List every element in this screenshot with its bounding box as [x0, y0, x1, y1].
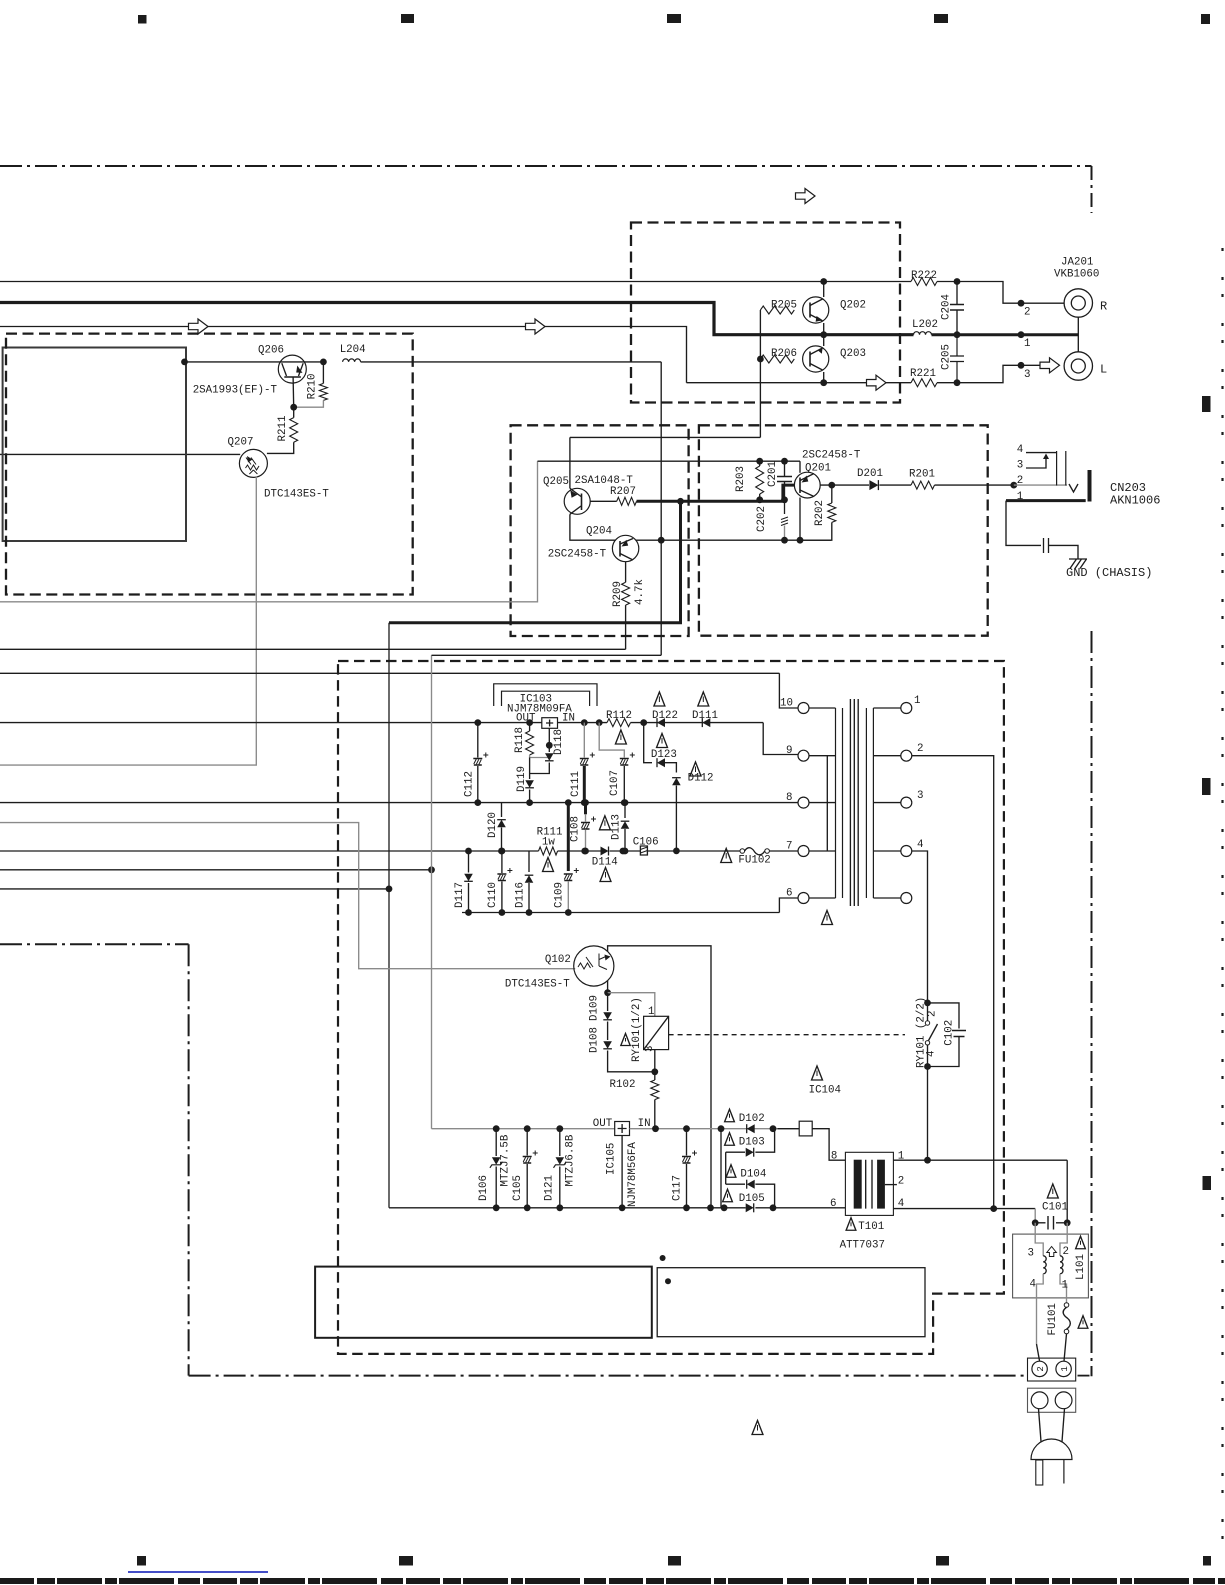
transformer core: [850, 699, 858, 906]
wire L101 winding2 lead: [1060, 1223, 1067, 1256]
wire L202 to jacks: [932, 333, 1079, 336]
inductor L202: [914, 332, 932, 335]
wire thick down to PSU: [388, 623, 390, 1208]
svg-text:2: 2: [917, 743, 923, 755]
wire Q207 emitter long down: [0, 477, 256, 765]
label switch pin 4: [926, 1051, 938, 1057]
fuse FU102: [740, 848, 769, 855]
node rail R102: [652, 1125, 659, 1132]
dashed box power supply section: [338, 661, 1004, 1354]
node C111 bottom: [581, 799, 588, 806]
label L204: [340, 344, 366, 356]
terminal 2: [1032, 1361, 1047, 1376]
registration mark top 2: [401, 14, 414, 23]
node R118 top: [526, 719, 533, 726]
node C101 right: [1064, 1219, 1071, 1226]
wire plug right: [1062, 1409, 1065, 1442]
label D112: [688, 773, 714, 785]
label Q203: [840, 348, 866, 360]
wire Q205 emitter top: [569, 437, 571, 488]
label IN IC103: [562, 713, 575, 725]
terminal block: [1028, 1358, 1076, 1381]
ground (chassis) symbol: [1069, 559, 1087, 569]
warning triangle above D122: [654, 692, 665, 706]
svg-text:Q204: Q204: [586, 526, 612, 538]
label CN203 pin3: [1017, 460, 1023, 472]
svg-text:2SA1993(EF)-T: 2SA1993(EF)-T: [193, 385, 278, 397]
svg-text:R: R: [1100, 300, 1107, 314]
svg-text:AKN1006: AKN1006: [1110, 494, 1160, 508]
sheet dash-dot border top-right corner: [1091, 166, 1093, 213]
node C112 top: [474, 719, 481, 726]
wire base feed R205/R206: [570, 436, 761, 438]
label NJM78M09FA: [507, 704, 572, 716]
node jack R feed: [1018, 300, 1025, 307]
capacitor C112: [473, 723, 488, 803]
node Q102 emitter: [604, 989, 611, 996]
node jack L feed: [1018, 362, 1025, 369]
diode D121 zener: [554, 1129, 567, 1208]
label R207: [610, 486, 636, 498]
connector JA201 jack R: [1064, 289, 1092, 317]
capacitor C107: [599, 723, 635, 803]
svg-text:C102: C102: [944, 1020, 956, 1046]
warning triangle D105: [723, 1189, 733, 1202]
connector CN203 housing: [1088, 470, 1092, 502]
svg-text:FU102: FU102: [738, 855, 770, 867]
dashed box Q201 section: [699, 425, 988, 635]
svg-text:3: 3: [1024, 369, 1030, 381]
wire Q204 emitter: [625, 562, 627, 583]
label FU101: [1047, 1303, 1059, 1335]
wire y326 to Q203: [0, 327, 687, 383]
diode D120: [497, 803, 506, 851]
wire R221 to jack L: [957, 365, 1040, 382]
label pin3 jack: [1024, 369, 1030, 381]
wire Q201 emitter down: [799, 498, 801, 541]
wire Q206 emitter down: [292, 377, 295, 407]
node C109 bottom: [565, 909, 572, 916]
label T101 pin1: [898, 1151, 904, 1163]
transformer primary pin 6: [798, 893, 836, 904]
warning triangle relay: [621, 1034, 630, 1046]
label 2SC2458-T Q204: [548, 548, 607, 560]
node R102 top: [651, 1068, 658, 1075]
wire y655 crossover: [432, 654, 662, 656]
transformer secondary pin 5: [873, 893, 911, 904]
wire rail y649 from left: [0, 648, 626, 650]
node C107 top: [596, 719, 603, 726]
wire T101 pin4 row: [893, 1208, 1035, 1210]
svg-text:D103: D103: [739, 1137, 765, 1149]
svg-text:OUT: OUT: [593, 1118, 613, 1130]
svg-text:L101: L101: [1075, 1254, 1087, 1280]
label R118: [514, 727, 526, 753]
label CN203: [1110, 481, 1146, 495]
wire Q102 collector loop: [608, 946, 711, 1208]
svg-text:R221: R221: [910, 368, 936, 380]
transformer secondary pin 3: [873, 797, 911, 808]
wire D102 ladder left: [720, 1129, 722, 1208]
svg-text:4: 4: [1030, 1279, 1036, 1291]
node D112 bottom: [673, 848, 680, 855]
label RY101(2/2): [916, 997, 928, 1068]
wire rail V1 to pin9: [763, 723, 798, 755]
ac plug prong left: [1036, 1460, 1043, 1485]
wire C106 to FU102: [648, 850, 741, 852]
ac connector pin left: [1031, 1392, 1048, 1409]
wire Q201 collector: [799, 461, 801, 473]
wire gray y822 to Q102 base: [0, 823, 575, 969]
label sec pin 3: [917, 790, 923, 802]
node Q202 emitter: [820, 331, 827, 338]
diode D111: [702, 718, 710, 727]
transformer secondary winding bars: [866, 708, 873, 898]
label L101: [1075, 1254, 1087, 1280]
label GND (CHASIS): [1066, 566, 1152, 580]
node pin4 row right vertical: [990, 1205, 997, 1212]
relay RY101(1/2) coil: [644, 1016, 669, 1049]
label 1w: [542, 836, 555, 848]
ac connector pin right: [1055, 1392, 1072, 1409]
transformer secondary pin 1: [873, 703, 911, 714]
svg-text:2SC2458-T: 2SC2458-T: [802, 450, 861, 462]
svg-text:Q203: Q203: [840, 348, 866, 360]
diode D106 zener: [490, 1129, 503, 1208]
svg-text:DTC143ES-T: DTC143ES-T: [264, 488, 329, 500]
transformer T101 left winding: [854, 1160, 862, 1209]
dashed box Q202/Q203 section: [631, 223, 900, 403]
node pin1 row relay vertical: [924, 1157, 931, 1164]
arrow on wire y326 mid: [526, 319, 546, 334]
connector JA201 jack L: [1064, 352, 1092, 380]
diode D118: [530, 728, 554, 773]
registration mark bottom 3: [668, 1556, 681, 1566]
capacitor C109 column: [564, 803, 579, 913]
label T101 pin4: [898, 1198, 904, 1210]
svg-text:R202: R202: [814, 500, 826, 526]
wire sec pin4 branch: [912, 851, 928, 1003]
wire D114 to C106: [610, 850, 641, 852]
svg-text:RY101(1/2): RY101(1/2): [631, 997, 643, 1062]
resistor R111: [539, 847, 558, 855]
warning triangle IC104: [812, 1066, 823, 1080]
warning triangle below R112: [615, 730, 626, 744]
node rail C117: [683, 1125, 690, 1132]
transistor Q204: [612, 535, 638, 561]
label Q102: [545, 954, 571, 966]
diode D109: [603, 993, 612, 1040]
svg-text:C109: C109: [554, 882, 566, 908]
label C204: [941, 294, 953, 320]
label D118: [553, 729, 565, 755]
capacitor gnd coupling: [1044, 538, 1049, 553]
wire CN203 pin3 with arrow: [1026, 454, 1049, 469]
wire cap to ground: [1049, 545, 1079, 559]
label MTZJ7.5B: [500, 1134, 512, 1186]
label D102: [739, 1113, 765, 1125]
node Q201 emitter bottom: [797, 537, 804, 544]
svg-text:3: 3: [917, 790, 923, 802]
svg-text:L: L: [1100, 363, 1107, 377]
capacitor C105: [523, 1129, 538, 1208]
label Q201: [805, 462, 831, 474]
warning triangle below R111: [543, 858, 554, 872]
wire D123 to D112: [665, 763, 676, 773]
wire x431 vertical: [431, 655, 433, 1128]
diode D112: [672, 778, 681, 786]
svg-text:R205: R205: [771, 299, 797, 311]
wire Q207 join rail y673: [0, 672, 779, 674]
node R203 bottom: [756, 496, 763, 503]
label D123: [651, 749, 677, 761]
label L101 pin3: [1028, 1248, 1034, 1260]
svg-text:D105: D105: [739, 1193, 765, 1205]
capacitor C108: [581, 803, 596, 850]
svg-text:10: 10: [780, 698, 793, 710]
label L202: [912, 319, 938, 331]
resistor R203: [756, 461, 764, 500]
wire CN203 pin4: [1026, 452, 1057, 454]
transformer primary pin 7: [798, 846, 836, 857]
label R206: [771, 348, 797, 360]
label R112: [606, 710, 632, 722]
capacitor C202: [781, 500, 788, 540]
wire Q202 emitter: [823, 323, 825, 335]
svg-text:D108: D108: [589, 1027, 601, 1053]
transformer secondary pin 4: [873, 846, 911, 857]
label JA201: [1061, 257, 1093, 269]
wire CN203 gnd path: [1006, 501, 1041, 546]
dashed box Q205/Q204 section: [511, 425, 689, 636]
node C109 column top: [565, 799, 572, 806]
node D114 right: [620, 848, 627, 855]
fuse FU101: [1063, 1303, 1070, 1334]
svg-text:R206: R206: [771, 348, 797, 360]
page right edge dash-dot border: [1221, 248, 1223, 1545]
node C108 bottom: [582, 848, 589, 855]
label L101 pin1: [1062, 1280, 1068, 1292]
arrow inside L101: [1047, 1247, 1057, 1257]
svg-text:6: 6: [786, 888, 792, 900]
wire C101 right drop: [1066, 1160, 1068, 1223]
resistor R202: [800, 485, 836, 540]
svg-text:C111: C111: [570, 771, 582, 797]
wire D102 to IC104: [778, 1128, 800, 1130]
label C202: [756, 506, 768, 532]
svg-text:C108: C108: [570, 816, 582, 842]
registration mark top 5: [1201, 14, 1210, 24]
node relay switch top: [924, 1000, 931, 1007]
terminal 1: [1056, 1361, 1071, 1376]
wire Q203 output row: [687, 382, 868, 384]
wire between jacks: [1077, 317, 1079, 352]
diode D201: [869, 480, 878, 490]
node D119 bottom: [526, 799, 533, 806]
registration mark bottom 2: [399, 1556, 413, 1566]
label pin 7: [786, 841, 792, 853]
ac connector block: [1028, 1388, 1076, 1412]
node D105 right: [770, 1204, 777, 1211]
wire rail ground bottom: [389, 1207, 746, 1209]
wire rail V1 y722: [0, 722, 763, 724]
sheet dash-dot border left-bottom vertical: [188, 944, 190, 1375]
label MTZJ6.8B: [565, 1134, 577, 1186]
ac plug body: [1031, 1439, 1072, 1460]
svg-text:2: 2: [927, 1011, 939, 1017]
arrow before R221: [867, 375, 887, 390]
wire Q102 emitter: [607, 981, 609, 993]
label D114: [592, 857, 618, 869]
label VKB1060: [1054, 269, 1099, 281]
node gnd D106: [493, 1204, 500, 1211]
label switch pin 2: [927, 1011, 939, 1017]
wire C101 left approach: [1034, 1209, 1036, 1223]
label pin 9: [786, 745, 792, 757]
svg-text:3: 3: [1017, 460, 1023, 472]
svg-text:D113: D113: [611, 814, 623, 840]
diode D122: [657, 718, 665, 727]
transformer T101 right winding: [877, 1160, 885, 1209]
ic IC105 output column: [621, 1136, 623, 1208]
registration mark right 1: [1202, 396, 1211, 412]
svg-text:4.7k: 4.7k: [634, 579, 646, 605]
transformer T101 box: [845, 1152, 893, 1215]
svg-text:1: 1: [1060, 1366, 1070, 1371]
label D119: [516, 766, 528, 792]
capacitor C111: [580, 723, 595, 803]
svg-text:Q206: Q206: [258, 345, 284, 357]
label C108: [570, 816, 582, 842]
svg-text:ATT7037: ATT7037: [840, 1240, 885, 1252]
svg-text:D118: D118: [553, 729, 565, 755]
wire rail V3 y851 left: [0, 850, 539, 852]
wire rail V3 mid: [558, 850, 602, 852]
warning triangle below transformer: [822, 911, 833, 925]
wire relay switch to T101: [927, 1067, 929, 1161]
node on pcb box edge: [181, 359, 188, 366]
svg-text:Q205: Q205: [543, 476, 569, 488]
label R203: [735, 466, 747, 492]
node D117 top: [465, 848, 472, 855]
capacitor C106: [640, 846, 647, 855]
resistor R206: [760, 355, 794, 363]
label pin 8: [786, 792, 792, 804]
resistor R205: [760, 306, 794, 314]
wire L101 winding1 lead: [1060, 1274, 1067, 1303]
blue underline bottom left: [128, 1571, 268, 1573]
capacitor C204: [950, 282, 964, 335]
svg-text:D102: D102: [739, 1113, 765, 1125]
node C108 top: [582, 799, 589, 806]
label relay pin 3: [644, 1046, 656, 1052]
wire pin10 feed: [779, 673, 798, 708]
node CN203 pin2: [1010, 482, 1017, 489]
capacitor C117: [682, 1129, 697, 1208]
diode D103: [746, 1148, 754, 1157]
warning triangle D104: [726, 1165, 736, 1178]
label C117: [672, 1175, 684, 1201]
svg-text:2: 2: [898, 1176, 904, 1188]
node gnd IC105: [619, 1204, 626, 1211]
warning triangle T101: [846, 1218, 856, 1231]
svg-text:Q201: Q201: [805, 462, 831, 474]
label D109: [589, 995, 601, 1021]
diode D105: [746, 1203, 754, 1212]
svg-text:2: 2: [1036, 1366, 1046, 1371]
label D113: [611, 814, 623, 840]
label R210: [307, 373, 319, 399]
wire top rail thick segment: [0, 303, 914, 335]
label R111: [537, 826, 563, 838]
svg-text:4: 4: [917, 839, 923, 851]
wire L101 winding3 lead: [1035, 1223, 1043, 1256]
wire Q203 emitter: [823, 372, 825, 383]
node y869 junction: [428, 866, 435, 873]
node C202 bottom: [781, 537, 788, 544]
filter L101 box: [1013, 1234, 1089, 1298]
svg-text:D116: D116: [515, 882, 527, 908]
wire rail IC105 top right: [630, 1128, 800, 1130]
svg-text:VKB1060: VKB1060: [1054, 269, 1099, 281]
label C105: [512, 1175, 524, 1201]
node R206 base junction: [757, 356, 764, 363]
svg-text:D117: D117: [454, 882, 466, 908]
svg-text:3: 3: [1028, 1248, 1034, 1260]
svg-text:C204: C204: [941, 294, 953, 320]
label C101: [1042, 1202, 1068, 1214]
label DTC143ES-T Q102: [505, 979, 570, 991]
svg-text:D111: D111: [692, 710, 718, 722]
svg-text:C110: C110: [487, 882, 499, 908]
pcb block box bottom right: [657, 1268, 925, 1337]
svg-text:C201: C201: [767, 461, 779, 487]
label D121: [544, 1175, 556, 1201]
ac plug prong right: [1063, 1460, 1065, 1484]
svg-text:4: 4: [926, 1051, 938, 1057]
label sec pin 2: [917, 743, 923, 755]
svg-text:L204: L204: [340, 344, 366, 356]
svg-text:4: 4: [1017, 444, 1023, 456]
wire R207 thick to Q201 base: [637, 485, 795, 501]
svg-text:R222: R222: [911, 270, 937, 282]
label CN203 pin4: [1017, 444, 1023, 456]
capacitor C102: [928, 1003, 967, 1067]
sheet dash-dot border right: [1091, 631, 1093, 1376]
registration mark bottom 1: [137, 1556, 146, 1566]
wire R206 junction down: [759, 359, 761, 437]
node rail D106: [493, 1125, 500, 1132]
label D122: [652, 710, 678, 722]
transistor Q102: [574, 946, 614, 986]
label pin 10: [780, 698, 793, 710]
label OUT IC103: [516, 713, 536, 725]
label D106: [478, 1175, 490, 1201]
warning triangle FU101: [1078, 1316, 1088, 1329]
registration mark top 1: [138, 15, 147, 24]
label FU102: [738, 855, 770, 867]
label sec pin 4: [917, 839, 923, 851]
sheet dash-dot border bottom-right segment: [1078, 1375, 1092, 1377]
ic IC104 body: [799, 1121, 812, 1136]
svg-text:C112: C112: [464, 771, 476, 797]
capacitor C201: [777, 461, 792, 500]
resistor R211: [267, 407, 298, 453]
transistor Q202: [803, 297, 829, 323]
svg-text:R203: R203: [735, 466, 747, 492]
capacitor C101: [1035, 1216, 1067, 1230]
wire thick branch down-left: [389, 501, 681, 623]
